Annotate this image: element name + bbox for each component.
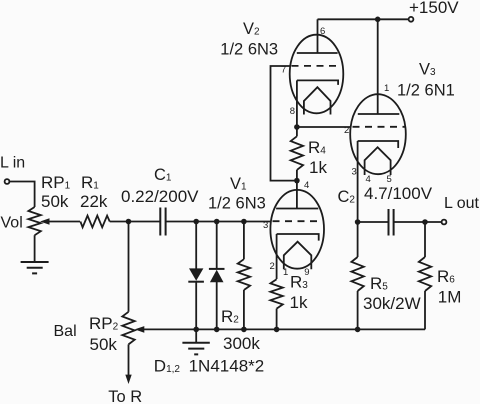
svg-text:4: 4 — [366, 174, 371, 185]
svg-text:4: 4 — [304, 180, 309, 191]
svg-text:3: 3 — [352, 167, 357, 178]
svg-text:50k: 50k — [90, 335, 118, 354]
svg-text:4.7/100V: 4.7/100V — [364, 184, 433, 203]
svg-text:50k: 50k — [41, 192, 69, 211]
svg-text:2: 2 — [344, 125, 349, 136]
svg-text:Vol: Vol — [1, 215, 23, 232]
svg-text:9: 9 — [304, 267, 309, 278]
svg-text:L in: L in — [0, 155, 25, 172]
svg-text:3: 3 — [263, 220, 268, 231]
svg-text:1M: 1M — [438, 288, 462, 307]
svg-text:1k: 1k — [290, 293, 308, 312]
svg-text:To R: To R — [108, 388, 142, 404]
svg-text:8: 8 — [290, 106, 295, 117]
svg-text:1/2 6N3: 1/2 6N3 — [220, 41, 278, 59]
svg-text:+150V: +150V — [409, 0, 459, 17]
svg-text:1: 1 — [384, 83, 389, 94]
svg-text:7: 7 — [281, 65, 286, 76]
svg-text:1/2 6N1: 1/2 6N1 — [397, 82, 455, 100]
svg-text:1/2 6N3: 1/2 6N3 — [208, 195, 266, 213]
svg-text:5: 5 — [387, 174, 392, 185]
svg-text:2: 2 — [270, 261, 275, 272]
svg-text:22k: 22k — [80, 192, 108, 211]
svg-text:0.22/200V: 0.22/200V — [121, 187, 199, 206]
svg-text:1N4148*2: 1N4148*2 — [189, 357, 265, 376]
svg-text:Bal: Bal — [54, 323, 77, 340]
svg-text:6: 6 — [320, 26, 325, 37]
svg-text:30k/2W: 30k/2W — [363, 294, 421, 313]
svg-text:1k: 1k — [309, 158, 327, 177]
svg-text:1: 1 — [283, 267, 288, 278]
svg-text:L out: L out — [444, 195, 480, 212]
svg-text:300k: 300k — [223, 334, 260, 353]
